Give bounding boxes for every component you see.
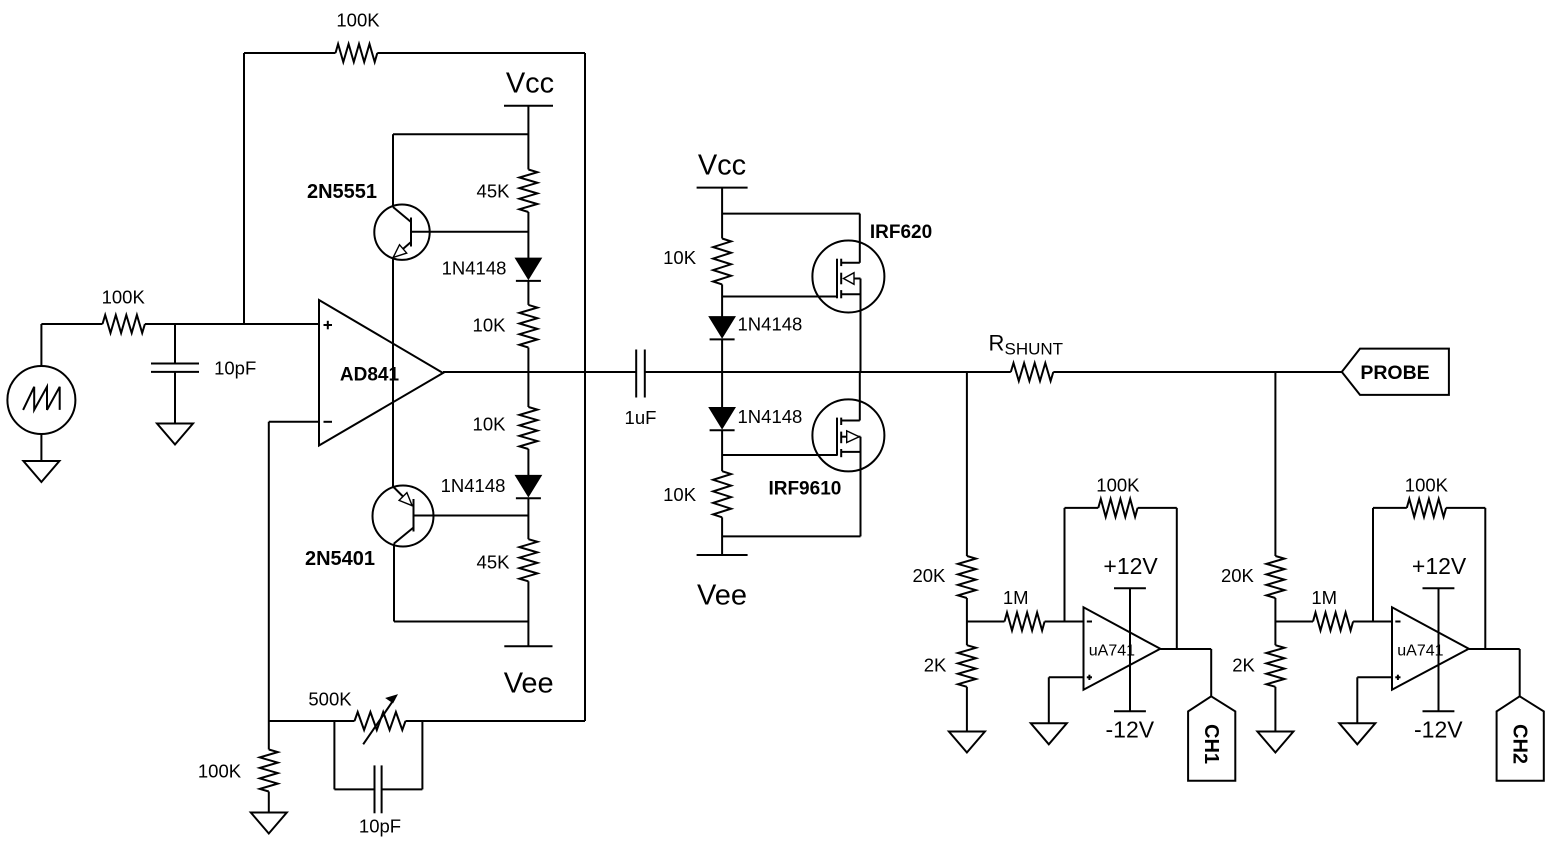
capacitor C2 10pF (comp) xyxy=(359,765,401,836)
svg-text:1uF: 1uF xyxy=(625,407,657,428)
wire 2K to ground (CH2) xyxy=(1274,687,1276,732)
wire Vcc to 45K xyxy=(527,106,529,170)
wire diode to output node (mid) xyxy=(721,340,723,408)
ground (minus network) xyxy=(251,813,287,834)
wire cap to ground xyxy=(174,372,176,423)
svg-text:SHUNT: SHUNT xyxy=(1005,340,1064,359)
ground (CH1 divider) xyxy=(949,732,985,753)
resistor 45K R3 (upper) xyxy=(477,170,538,213)
wire op-amp output xyxy=(443,371,636,373)
wire feedback right vertical xyxy=(584,53,586,721)
svg-text:10K: 10K xyxy=(663,484,697,505)
resistor 100K R7 (to ground) xyxy=(198,721,278,792)
resistor 20K (CH2) xyxy=(1221,556,1284,598)
ground (source) xyxy=(23,461,59,482)
mosfet M1 IRF620 xyxy=(812,214,932,372)
capacitor C1 10pF (input) xyxy=(151,358,256,379)
svg-text:45K: 45K xyxy=(477,552,511,573)
resistor 1M (CH2) xyxy=(1311,587,1353,630)
svg-text:CH2: CH2 xyxy=(1509,724,1531,764)
wire 20K to node (CH1) xyxy=(966,598,968,645)
wire node to 1M (CH1) xyxy=(967,621,1005,623)
wire feedback up (CH2) xyxy=(1372,508,1374,622)
svg-text:1M: 1M xyxy=(1311,587,1337,608)
svg-text:10pF: 10pF xyxy=(214,358,256,379)
resistor RSHUNT xyxy=(989,331,1064,382)
diode D1 1N4148 (upper) xyxy=(442,258,542,281)
resistor 10K R5 (lower mid) xyxy=(473,407,538,449)
source V1 sawtooth generator xyxy=(7,366,75,434)
wire Q2 collector to Vee rail xyxy=(394,544,528,622)
power +12V (CH1) xyxy=(1103,553,1158,711)
wire shunt to probe xyxy=(1053,371,1342,373)
wire 1M to minus input (CH1) xyxy=(1045,621,1084,623)
resistor 100K R1 (input) xyxy=(102,287,146,333)
power -12V (CH2) xyxy=(1414,711,1463,742)
wire bottom rail to IRF9610 drain xyxy=(722,535,860,537)
svg-text:Vee: Vee xyxy=(697,579,747,611)
connector PROBE xyxy=(1342,349,1449,395)
wire feedback down (CH1) xyxy=(1176,508,1178,649)
svg-text:AD841: AD841 xyxy=(340,364,400,385)
svg-text:1M: 1M xyxy=(1003,587,1029,608)
svg-text:20K: 20K xyxy=(912,565,946,586)
resistor 10K R4 (upper mid) xyxy=(473,305,538,348)
capacitor C3 1uF xyxy=(625,350,657,429)
wire comp cap branch left xyxy=(334,721,374,789)
potentiometer 500K xyxy=(308,689,405,745)
svg-text:100K: 100K xyxy=(1405,475,1449,496)
svg-text:uA741: uA741 xyxy=(1397,643,1443,660)
wire cap branch xyxy=(174,324,176,364)
power Vee (driver) xyxy=(697,555,748,611)
wire 45K to diode xyxy=(527,212,529,258)
resistor 1M (CH1) xyxy=(1003,587,1045,630)
wire 2K to ground (CH1) xyxy=(966,687,968,732)
mosfet M2 IRF9610 xyxy=(768,372,884,536)
connector CH2 xyxy=(1497,696,1544,780)
wire emitter rail Q1-Q2 xyxy=(392,258,394,487)
wire feedback left vertical xyxy=(243,53,245,324)
wire plus input to ground (CH1) xyxy=(1049,677,1084,723)
svg-text:500K: 500K xyxy=(308,689,352,710)
wire output node to 10K lower xyxy=(527,372,529,407)
wire source bottom lead xyxy=(40,434,42,461)
wire cap to gate driver node xyxy=(645,371,1011,373)
svg-text:CH1: CH1 xyxy=(1200,724,1222,764)
svg-text:100K: 100K xyxy=(102,287,146,308)
svg-text:10K: 10K xyxy=(473,315,507,336)
svg-text:Vcc: Vcc xyxy=(506,67,554,99)
resistor 10K R9 (gate lower) xyxy=(663,471,731,517)
svg-text:10K: 10K xyxy=(663,247,697,268)
wire diode to 10K xyxy=(527,281,529,305)
svg-text:IRF9610: IRF9610 xyxy=(768,479,841,500)
svg-text:100K: 100K xyxy=(198,761,242,782)
wire gate IRF9610 xyxy=(722,454,837,456)
wire comp cap branch right xyxy=(382,721,423,789)
wire 45K to Vee xyxy=(527,581,529,646)
svg-text:PROBE: PROBE xyxy=(1360,362,1429,384)
wire 10K to Vee (driver) xyxy=(721,517,723,555)
wire output (CH2) xyxy=(1469,649,1520,696)
svg-text:+12V: +12V xyxy=(1103,553,1158,579)
wire output (CH1) xyxy=(1160,649,1211,696)
wire feedback bottom left xyxy=(269,720,355,722)
diode D3 1N4148 (gate upper) xyxy=(709,314,802,340)
wire node to 1M (CH2) xyxy=(1275,621,1313,623)
wire tap CH2 xyxy=(1274,372,1276,556)
power Vee (left) xyxy=(504,646,554,699)
wire tap CH1 xyxy=(966,372,968,556)
svg-text:IRF620: IRF620 xyxy=(870,222,932,243)
wire Q1 base xyxy=(411,231,528,233)
svg-text:R: R xyxy=(989,331,1005,356)
svg-text:Vee: Vee xyxy=(504,668,554,700)
svg-text:100K: 100K xyxy=(336,10,380,31)
wire 1M to minus input (CH2) xyxy=(1353,621,1392,623)
wire 20K to node (CH2) xyxy=(1274,598,1276,645)
svg-text:-12V: -12V xyxy=(1414,717,1463,743)
resistor 100K feedback (CH1) xyxy=(1065,475,1177,517)
resistor 2K (CH2) xyxy=(1232,645,1284,687)
svg-text:2N5551: 2N5551 xyxy=(307,181,377,203)
power Vcc (left) xyxy=(504,67,554,105)
svg-text:1N4148: 1N4148 xyxy=(738,406,803,427)
svg-text:10pF: 10pF xyxy=(359,816,401,837)
ground (CH2 plus input) xyxy=(1339,723,1375,744)
wire Vcc to rail junction xyxy=(721,188,723,239)
resistor 100K feedback (CH2) xyxy=(1373,475,1485,517)
wire feedback bottom right xyxy=(406,720,586,722)
resistor 45K R6 (lower) xyxy=(477,539,538,581)
svg-text:2N5401: 2N5401 xyxy=(305,548,375,570)
svg-text:100K: 100K xyxy=(1096,475,1140,496)
transistor Q1 2N5551 xyxy=(307,134,430,260)
op-amp U1 AD841 xyxy=(319,300,443,446)
wire diode to 45K lower xyxy=(527,498,529,539)
diode D4 1N4148 (gate lower) xyxy=(709,406,802,430)
svg-text:-12V: -12V xyxy=(1106,717,1155,743)
svg-text:1N4148: 1N4148 xyxy=(738,314,803,335)
svg-text:Vcc: Vcc xyxy=(698,149,746,181)
transistor Q2 2N5401 xyxy=(305,486,434,571)
wire 100K to ground xyxy=(268,792,270,813)
connector CH1 xyxy=(1188,696,1235,780)
wire feedback down (CH2) xyxy=(1484,508,1486,649)
diode D2 1N4148 (lower) xyxy=(441,475,542,498)
wire op-amp minus input xyxy=(269,422,319,721)
wire top rail to IRF620 drain xyxy=(722,213,860,215)
wire Q2 base xyxy=(414,515,529,517)
svg-text:+12V: +12V xyxy=(1412,553,1467,579)
svg-text:2K: 2K xyxy=(924,655,947,676)
wire Q1 collector to Vcc rail xyxy=(393,133,529,135)
wire gate IRF620 xyxy=(722,296,837,298)
svg-text:2K: 2K xyxy=(1232,655,1255,676)
resistor 2K (CH1) xyxy=(924,645,976,687)
wire source to input node xyxy=(41,324,102,366)
wire 10K to diode lower xyxy=(527,449,529,475)
svg-text:1N4148: 1N4148 xyxy=(441,475,506,496)
svg-text:uA741: uA741 xyxy=(1089,643,1135,660)
svg-text:1N4148: 1N4148 xyxy=(442,258,507,279)
power +12V (CH2) xyxy=(1412,553,1467,711)
ground (CH1 plus input) xyxy=(1031,723,1067,744)
wire diode to 10K lower (mid) xyxy=(721,431,723,472)
resistor 20K (CH1) xyxy=(912,556,975,598)
wire feedback up (CH1) xyxy=(1064,508,1066,622)
svg-text:20K: 20K xyxy=(1221,565,1255,586)
op-amp uA741 (CH1) xyxy=(1084,607,1161,689)
svg-text:45K: 45K xyxy=(477,181,511,202)
wire input node to op-amp + xyxy=(145,323,319,325)
power -12V (CH1) xyxy=(1106,711,1155,742)
svg-text:10K: 10K xyxy=(473,414,507,435)
ground (CH2 divider) xyxy=(1257,732,1293,753)
wire 10K to diode upper xyxy=(721,284,723,316)
ground (input cap) xyxy=(157,424,193,445)
op-amp uA741 (CH2) xyxy=(1392,607,1469,689)
resistor 100K R2 (feedback) xyxy=(244,10,585,62)
wire plus input to ground (CH2) xyxy=(1357,677,1392,723)
wire 10K to output node xyxy=(527,348,529,373)
resistor 10K R8 (gate upper) xyxy=(663,239,731,285)
power Vcc (driver) xyxy=(697,149,748,187)
